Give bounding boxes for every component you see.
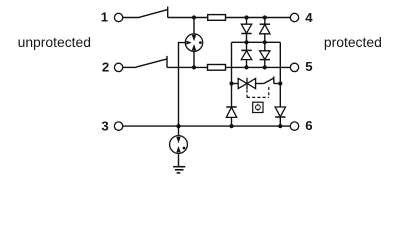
terminal 5: [290, 63, 298, 71]
resistor (line 1): [208, 15, 226, 21]
terminal 3: [114, 122, 122, 130]
terminal 1: [114, 13, 122, 21]
wire line3 to earth GDT: [178, 126, 180, 136]
resistor (line 2): [208, 65, 226, 71]
diode D5 (left outer, cathode up): [226, 107, 236, 117]
wire GDT bottom to line2: [193, 51, 195, 67]
wire diode midpoint tie: [232, 41, 281, 43]
junction line2 / left diode branch: [244, 65, 248, 69]
junction line1 / right diode branch: [263, 15, 267, 19]
terminal 4: [290, 13, 298, 21]
disconnect switch blade (line 2): [136, 59, 167, 67]
junction TVS rail / right outer branch: [278, 81, 282, 85]
wire resistor to terminal 5: [226, 66, 291, 68]
junction line1 / left diode branch: [244, 15, 248, 19]
diode D3 (right top, cathode up): [260, 24, 270, 34]
mechanical linkage (dashed) to switch: [268, 87, 270, 97]
wire resistor to terminal 4: [226, 17, 291, 19]
diode D2 (left bottom, cathode up): [241, 50, 251, 59]
wire right inner diode branch: [264, 18, 266, 68]
disconnect switch fixed contact (line 2): [166, 56, 168, 68]
junction tie / left branch: [244, 40, 248, 44]
thermal disconnect switch blade: [264, 78, 274, 83]
svg-text:4: 4: [305, 10, 313, 25]
wire TVS to thermal switch: [256, 83, 264, 85]
wire GDT center electrode: [179, 43, 186, 127]
wire terminal 3 to terminal 6: [123, 125, 290, 127]
ground: [173, 167, 185, 173]
svg-text:6: 6: [305, 118, 312, 133]
terminal 2: [114, 63, 122, 71]
wire left inner diode branch: [246, 18, 248, 68]
junction line2 / GDT: [192, 65, 196, 69]
disconnect switch fixed contact (line 1): [167, 7, 169, 18]
gas discharge tube U1 (3-electrode): [185, 34, 202, 51]
junction line3 / left outer branch: [229, 124, 233, 128]
wire terminal 1 to switch: [123, 17, 140, 19]
thermal disconnect switch fixed contact: [273, 76, 275, 83]
wire switch to resistor (line 2): [167, 66, 208, 68]
svg-text:unprotected: unprotected: [18, 34, 91, 50]
wire TVS rail left: [232, 83, 239, 85]
junction line3 / right outer branch: [278, 124, 282, 128]
svg-text:3: 3: [101, 119, 108, 134]
diode D1 (left top, cathode down): [241, 24, 251, 33]
mechanical linkage (dashed) TVS to trigger: [246, 90, 248, 98]
junction tie / right branch: [263, 40, 267, 44]
wire line1 to GDT top: [193, 18, 195, 35]
wire right outer branch: [279, 42, 281, 126]
terminal 6: [290, 122, 298, 130]
mechanical linkage (dashed) horizontal: [247, 96, 269, 98]
junction line1 / GDT: [192, 15, 196, 19]
svg-text:5: 5: [305, 59, 312, 74]
junction line3 / earth branch: [176, 124, 180, 128]
svg-text:2: 2: [102, 59, 109, 74]
diode D4 (right bottom, cathode down): [260, 51, 270, 60]
wire terminal 2 to switch: [123, 66, 136, 68]
gas discharge tube U2 (earth): [170, 136, 188, 154]
junction line2 / right diode branch: [263, 65, 267, 69]
bidirectional suppressor TVS: [238, 78, 255, 89]
disconnect switch blade (line 1): [139, 10, 168, 18]
thermal disconnect element: [253, 102, 263, 112]
svg-text:protected: protected: [324, 34, 382, 50]
diode D6 (right outer, cathode down): [275, 107, 285, 117]
wire earth GDT to ground: [178, 153, 180, 166]
wire left outer branch: [231, 42, 233, 126]
junction TVS rail / left outer branch: [229, 81, 233, 85]
svg-text:1: 1: [101, 10, 108, 25]
wire switch to resistor (line 1): [168, 17, 208, 19]
wire switch to right outer branch: [274, 83, 281, 85]
